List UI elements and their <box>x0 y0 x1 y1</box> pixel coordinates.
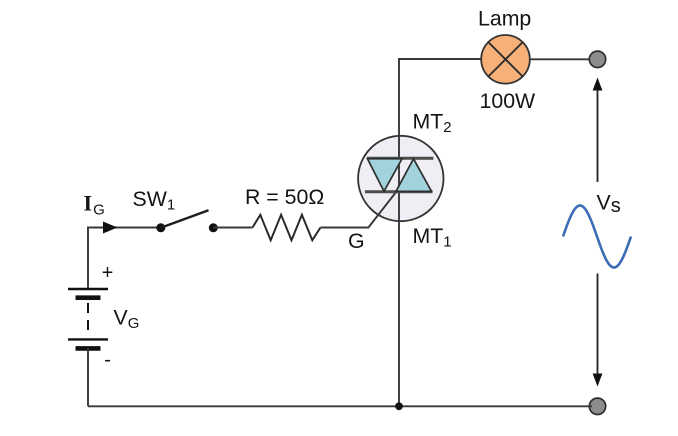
wire: gate horizontal from left corner to switch <box>87 227 161 229</box>
AC sine wave symbol <box>563 206 631 268</box>
battery VG top cell short plate <box>76 295 101 300</box>
triac body circle <box>358 136 443 221</box>
wire: switch to resistor <box>213 227 252 229</box>
svg-text:R = 50Ω: R = 50Ω <box>245 185 324 209</box>
battery VG bottom cell short plate <box>76 346 101 351</box>
wire: lamp to right top terminal <box>530 58 592 60</box>
svg-text:MT1: MT1 <box>413 224 452 251</box>
battery VG top cell long plate <box>68 288 108 290</box>
terminal dot bottom right <box>589 398 605 414</box>
resistor R zigzag <box>253 215 321 240</box>
svg-text:100W: 100W <box>480 89 537 113</box>
battery VG bottom cell long plate <box>68 338 108 340</box>
svg-text:Vs: Vs <box>597 191 621 218</box>
triac left triangle (points down) <box>368 159 403 192</box>
Vs arrow up (top) <box>597 88 599 182</box>
battery VG dashed link <box>87 303 89 334</box>
svg-text:IG: IG <box>84 191 105 219</box>
wire: bottom horizontal <box>88 405 592 407</box>
svg-text:MT2: MT2 <box>413 110 452 137</box>
terminal dot top right <box>589 51 605 67</box>
lamp circle <box>481 35 530 84</box>
triac right triangle (points up) <box>396 159 432 192</box>
svg-text:-: - <box>104 349 111 371</box>
triac MT2 electrode bar <box>367 157 433 160</box>
triac MT1 electrode bar <box>365 190 433 193</box>
Vs arrow down (bottom) <box>597 274 599 377</box>
wire: gate diagonal lead into triac <box>368 192 397 229</box>
node: junction dot at triac/bottom wire <box>395 402 403 410</box>
svg-text:VG: VG <box>114 306 140 333</box>
lamp X cross <box>488 42 522 76</box>
wire: top horizontal to lamp <box>398 58 482 60</box>
wire: resistor to gate bend <box>321 227 369 229</box>
svg-text:SW1: SW1 <box>133 187 176 214</box>
svg-text:G: G <box>348 229 365 253</box>
switch SW1 left contact dot <box>156 223 165 232</box>
wire: main vertical MT2-MT1 line <box>398 58 400 406</box>
wire: battery - terminal to bottom wire <box>87 348 89 406</box>
wire: left vertical from gate loop to battery + terminal <box>87 228 89 290</box>
svg-text:Lamp: Lamp <box>478 7 531 31</box>
current direction arrow IG <box>103 222 118 234</box>
switch SW1 blade <box>161 210 209 228</box>
switch SW1 right contact dot <box>209 223 218 232</box>
svg-text:+: + <box>102 262 114 284</box>
